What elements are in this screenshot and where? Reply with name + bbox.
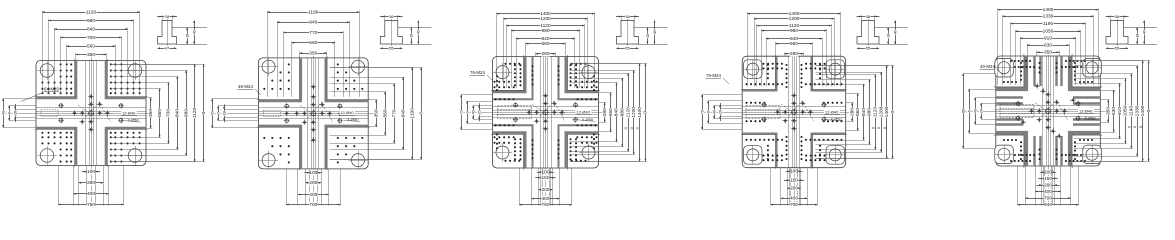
dim 630 right D5 [1113, 90, 1115, 132]
dim 700 right D1 [168, 83, 170, 144]
dim 1190 top D5 [1011, 23, 1086, 25]
dim 910 top D5 [1020, 38, 1076, 40]
svg-text:0: 0 [7, 112, 11, 114]
svg-text:40: 40 [1, 111, 5, 115]
svg-text:940: 940 [400, 109, 406, 117]
svg-text:350: 350 [1044, 50, 1052, 56]
svg-text:840: 840 [87, 26, 95, 32]
slot bars D5 offset 13.5 [996, 96, 1023, 98]
svg-text:40: 40 [471, 110, 475, 114]
svg-text:560: 560 [309, 40, 317, 46]
svg-text:630: 630 [1044, 43, 1052, 49]
dim 100 bottom D2 [304, 172, 322, 174]
dim 1400 right D3 [639, 63, 641, 161]
svg-text:700: 700 [1044, 195, 1052, 201]
mounting hole pattern D2 [264, 64, 362, 162]
dim 350 top D1 [76, 54, 106, 56]
svg-text:100: 100 [541, 169, 549, 175]
vertical centerline D5 [1048, 52, 1050, 206]
tie-bar holes D5 [998, 62, 1010, 74]
svg-text:12-Ø40: 12-Ø40 [122, 110, 136, 115]
svg-text:40: 40 [973, 109, 977, 113]
dim 980 right D3 [622, 78, 624, 147]
svg-text:1120: 1120 [86, 9, 97, 15]
dim 1330 top D5 [1003, 16, 1093, 18]
svg-text:700: 700 [87, 35, 95, 41]
svg-text:18: 18 [185, 34, 189, 38]
svg-text:1050: 1050 [1043, 29, 1054, 35]
svg-text:40: 40 [712, 110, 716, 114]
svg-text:76-M24: 76-M24 [470, 70, 485, 75]
svg-text:12-Ø40: 12-Ø40 [825, 109, 839, 114]
dim 1200 top D3 [504, 18, 588, 20]
detail depth dims D3 [647, 28, 649, 45]
dim 1120 top D4 [757, 25, 832, 27]
dim 700 top D1 [61, 37, 122, 39]
dim 100 bottom D4 [786, 171, 803, 173]
dim 1200 right D4 [881, 72, 883, 152]
svg-text:980: 980 [541, 28, 549, 34]
dim 400 bottom D3 [532, 198, 560, 200]
dim 750 bottom D1 [58, 204, 123, 206]
dim 1120 right D3 [628, 73, 630, 151]
dim 350 top D2 [300, 53, 327, 55]
detail dim 36 D2 [380, 16, 403, 18]
dim 1120 right D1 [194, 64, 196, 161]
dim 0 right D2 [421, 68, 423, 160]
svg-text:48-M24: 48-M24 [238, 84, 253, 89]
dim 840 right D1 [177, 77, 179, 150]
svg-text:40: 40 [1142, 30, 1146, 34]
svg-text:980: 980 [790, 28, 798, 34]
svg-text:980: 980 [183, 109, 189, 117]
svg-text:750: 750 [541, 202, 549, 206]
dim 840 top D1 [55, 29, 128, 31]
dim 560 right D4 [857, 93, 859, 130]
svg-text:200: 200 [1044, 182, 1052, 188]
dim 910 right D5 [1119, 83, 1121, 139]
svg-text:350: 350 [373, 109, 379, 117]
svg-text:980: 980 [620, 108, 626, 116]
dim 1200 right D3 [633, 70, 635, 154]
dim 770 top D2 [284, 32, 343, 34]
horizontal centerline D3 [461, 112, 605, 114]
center locating holes D5 [1046, 109, 1051, 114]
platen outline D4 [742, 56, 846, 168]
center locating holes D1 [89, 111, 94, 116]
svg-text:36: 36 [389, 14, 394, 19]
dim 1400 top D4 [747, 13, 840, 15]
dim 770 right D2 [394, 84, 396, 143]
detail depth dims D2 [411, 28, 413, 45]
dim 840 top D4 [766, 38, 822, 40]
svg-text:700: 700 [166, 109, 172, 117]
dim 280 right D4 [852, 103, 854, 122]
svg-text:47: 47 [165, 46, 170, 51]
center dashed leaders D1 [86, 102, 111, 122]
dim 1400 right D4 [886, 65, 888, 158]
arm slot lines D5 [1042, 56, 1044, 166]
left arm dims D2 [212, 99, 214, 128]
svg-text:1050: 1050 [1123, 105, 1129, 116]
svg-text:40: 40 [192, 30, 196, 34]
svg-text:1190: 1190 [1043, 21, 1054, 27]
svg-text:0: 0 [465, 111, 469, 113]
svg-text:76-M24: 76-M24 [706, 73, 721, 78]
svg-text:0: 0 [967, 110, 971, 112]
T-slot section detail D5 [1106, 21, 1128, 45]
svg-text:750: 750 [87, 202, 95, 206]
dim 980 top D3 [511, 30, 580, 32]
svg-text:1200: 1200 [878, 106, 884, 117]
left arm dims D5 [963, 74, 965, 149]
dim 1050 top D5 [1016, 31, 1081, 33]
svg-text:40: 40 [893, 30, 897, 34]
T-slot section detail D4 [857, 21, 879, 45]
svg-text:770: 770 [309, 30, 317, 36]
svg-text:560: 560 [855, 108, 861, 116]
svg-text:40: 40 [417, 30, 421, 34]
dim 0 right D4 [892, 65, 894, 158]
dim 280 top D3 [536, 53, 556, 55]
dim 700 bottom D2 [286, 204, 340, 206]
center dashed leaders D4 [789, 101, 814, 121]
center labels D1 [121, 110, 137, 115]
svg-text:0: 0 [201, 111, 207, 114]
center locating holes D3 [543, 110, 548, 115]
svg-text:100: 100 [1044, 169, 1052, 175]
svg-text:1120: 1120 [873, 107, 879, 118]
dim 1200 top D4 [754, 18, 834, 20]
svg-text:20: 20 [979, 109, 983, 113]
svg-text:1400: 1400 [540, 11, 551, 17]
T-slot cross bands D1 [36, 61, 76, 99]
svg-text:55: 55 [625, 46, 630, 51]
dim 100 bottom D1 [82, 171, 101, 173]
svg-text:150: 150 [790, 177, 798, 183]
tie-bar holes D2 [262, 60, 275, 73]
mounting hole pattern D5 [1004, 61, 1092, 161]
svg-text:280: 280 [790, 51, 798, 57]
svg-text:910: 910 [1117, 107, 1123, 115]
dim 840 right D3 [616, 83, 618, 142]
dim 700 bottom D4 [771, 204, 818, 206]
svg-text:0: 0 [890, 110, 896, 113]
mounting hole pattern D4 [747, 64, 842, 160]
svg-text:40: 40 [210, 111, 214, 115]
svg-text:200: 200 [790, 185, 798, 191]
dim 400 bottom D2 [298, 194, 329, 196]
platen outline D1 [36, 61, 146, 166]
dim 980 right D1 [186, 71, 188, 156]
detail dim 55 D2 [380, 48, 402, 50]
svg-text:100: 100 [87, 169, 95, 175]
dim 630 top D5 [1027, 45, 1069, 47]
center dashed leaders D3 [540, 101, 565, 121]
svg-text:40: 40 [653, 30, 657, 34]
dim 1400 top D5 [998, 9, 1098, 11]
svg-text:560: 560 [157, 109, 163, 117]
svg-text:36: 36 [625, 14, 630, 19]
svg-text:100: 100 [309, 170, 317, 176]
svg-text:400: 400 [1044, 189, 1052, 195]
svg-text:1190: 1190 [308, 9, 319, 15]
center labels D4 [824, 109, 840, 114]
svg-text:280: 280 [541, 51, 549, 57]
dim 1120 top D1 [42, 12, 139, 14]
svg-text:350: 350 [309, 50, 317, 56]
detail depth dims D1 [187, 28, 189, 45]
svg-text:0: 0 [1139, 126, 1143, 128]
svg-text:840: 840 [175, 109, 181, 117]
dim 0 right D1 [203, 64, 205, 161]
svg-text:150: 150 [541, 175, 549, 181]
svg-text:1200: 1200 [540, 16, 551, 22]
dim 150 bottom D4 [784, 180, 804, 182]
dim 1190 top D2 [267, 12, 359, 14]
dim 280 bottom D1 [79, 182, 103, 184]
dim 400 bottom D4 [781, 198, 808, 200]
svg-text:1190: 1190 [1129, 106, 1135, 117]
vertical centerline D3 [545, 53, 547, 207]
left arm dims D3 [461, 95, 463, 130]
svg-text:630: 630 [1111, 107, 1117, 115]
dim 940 top D2 [277, 22, 349, 24]
dim 700 bottom D5 [1025, 198, 1070, 200]
horizontal centerline D1 [3, 113, 152, 115]
svg-text:0: 0 [1146, 109, 1152, 112]
svg-text:940: 940 [309, 20, 317, 26]
dim 840 top D3 [516, 38, 575, 40]
svg-text:1120: 1120 [625, 107, 631, 118]
vertical centerline D2 [313, 54, 315, 206]
svg-text:1400: 1400 [789, 11, 800, 17]
svg-text:980: 980 [867, 108, 873, 116]
dim 560 top D1 [67, 46, 116, 48]
svg-text:1190: 1190 [409, 108, 415, 119]
dim 560 top D2 [292, 42, 335, 44]
detail depth dims D5 [1137, 28, 1139, 45]
svg-text:12-Ø40: 12-Ø40 [1079, 108, 1093, 113]
dim 1190 right D5 [1131, 74, 1133, 149]
svg-text:350: 350 [148, 109, 154, 117]
dim 1050 right D5 [1125, 79, 1127, 144]
svg-text:1330: 1330 [1043, 14, 1054, 20]
dim 400 bottom D5 [1035, 191, 1061, 193]
dim 200 bottom D5 [1037, 185, 1060, 187]
svg-text:560: 560 [382, 109, 388, 117]
T-slot cross bands D4 [742, 56, 776, 90]
dim 200 bottom D2 [306, 182, 321, 184]
svg-text:350: 350 [1105, 107, 1111, 115]
dim 150 bottom D3 [535, 177, 555, 179]
svg-text:400: 400 [87, 191, 95, 197]
svg-text:1400: 1400 [884, 106, 890, 117]
svg-text:36: 36 [1115, 14, 1120, 19]
svg-text:70: 70 [700, 110, 704, 114]
svg-text:840: 840 [614, 108, 620, 116]
T-slot cross bands D5 [996, 56, 1026, 89]
dim 150 bottom D5 [1038, 178, 1058, 180]
svg-text:0: 0 [871, 127, 875, 129]
tie-bar holes D1 [40, 64, 54, 78]
arm slot lines D2 [307, 58, 309, 169]
svg-text:150: 150 [1044, 176, 1052, 182]
svg-text:980: 980 [87, 18, 95, 24]
svg-text:200: 200 [541, 187, 549, 193]
svg-text:0: 0 [706, 111, 710, 113]
svg-text:350: 350 [87, 52, 95, 58]
center dashed leaders D2 [308, 102, 333, 122]
svg-text:18: 18 [886, 34, 890, 38]
vertical centerline D1 [91, 57, 93, 207]
dim 980 top D1 [49, 20, 134, 22]
horizontal centerline D2 [212, 113, 374, 115]
dim 980 top D4 [761, 30, 826, 32]
arm slot lines D4 [788, 56, 790, 168]
detail dim 36 D4 [857, 16, 880, 18]
svg-text:28: 28 [13, 111, 17, 115]
center dashed leaders D5 [1043, 100, 1068, 120]
svg-text:770: 770 [391, 109, 397, 117]
dim 200 bottom D4 [787, 188, 800, 190]
detail dim 36 D5 [1106, 16, 1129, 18]
svg-text:100: 100 [790, 168, 798, 174]
dim 1120 right D4 [875, 75, 877, 150]
platen outline D3 [493, 57, 599, 169]
T-slot section detail D1 [158, 21, 177, 45]
slot key marks D1 [41, 110, 58, 116]
svg-text:64-M20: 64-M20 [44, 87, 59, 92]
T-slot section detail D3 [617, 21, 639, 45]
dim 350 right D5 [1108, 100, 1110, 122]
svg-text:940: 940 [1044, 202, 1052, 206]
dim 350 right D1 [150, 98, 152, 128]
svg-text:700: 700 [790, 202, 798, 206]
svg-text:280: 280 [602, 108, 608, 116]
svg-text:280: 280 [849, 108, 855, 116]
svg-text:55: 55 [389, 46, 394, 51]
dim 280 top D4 [785, 53, 804, 55]
detail dim 55 D4 [857, 48, 879, 50]
svg-text:400: 400 [309, 192, 317, 198]
svg-text:0: 0 [877, 127, 881, 129]
dim 0 right D3 [645, 63, 647, 161]
dim 560 right D1 [159, 89, 161, 138]
dim 560 top D4 [775, 43, 812, 45]
svg-text:18: 18 [410, 34, 414, 38]
platen outline D2 [258, 58, 368, 169]
svg-text:560: 560 [790, 41, 798, 47]
svg-text:36: 36 [866, 14, 871, 19]
svg-text:560: 560 [541, 41, 549, 47]
svg-text:1200: 1200 [789, 16, 800, 22]
svg-text:1400: 1400 [1043, 7, 1054, 13]
svg-text:560: 560 [608, 108, 614, 116]
dim 840 right D4 [863, 84, 865, 140]
keyway hatch D3 [498, 106, 532, 119]
mounting hole pattern D3 [495, 64, 597, 161]
left arm dims D4 [702, 95, 704, 130]
dim 100 bottom D5 [1040, 172, 1056, 174]
mounting hole pattern D1 [42, 64, 139, 161]
svg-text:18: 18 [1135, 34, 1139, 38]
svg-text:0: 0 [883, 127, 887, 129]
dim 100 bottom D3 [537, 172, 554, 174]
tie-bar holes D4 [747, 63, 759, 75]
svg-text:0: 0 [1133, 126, 1137, 128]
detail dim 55 D5 [1106, 48, 1128, 50]
svg-text:55: 55 [1115, 46, 1120, 51]
svg-text:700: 700 [309, 202, 317, 206]
dim 1400 top D3 [497, 13, 595, 15]
dim 0 right D5 [1148, 61, 1150, 161]
detail dim 55 D3 [617, 48, 639, 50]
tie-bar holes D3 [496, 66, 509, 79]
svg-text:0: 0 [418, 112, 424, 115]
T-slot cross bands D2 [258, 58, 300, 101]
dim 560 right D2 [385, 92, 387, 135]
slot key marks D2 [263, 110, 280, 116]
horizontal centerline D4 [702, 112, 852, 114]
detail dim 28 D1 [157, 16, 177, 18]
slot bars D5 offset 8.0 [996, 102, 1023, 104]
dim 1120 top D3 [506, 25, 584, 27]
keyway hatch D5 [1000, 105, 1034, 118]
dim 560 right D3 [610, 93, 612, 132]
svg-text:28: 28 [165, 14, 170, 19]
keyway hatch D4 [746, 106, 780, 119]
dim 940 right D2 [403, 77, 405, 149]
dim 1190 right D2 [412, 68, 414, 160]
platen outline D5 [996, 56, 1101, 166]
svg-text:400: 400 [541, 196, 549, 202]
svg-text:1400: 1400 [637, 107, 643, 118]
svg-text:12-Ø40: 12-Ø40 [577, 110, 591, 115]
svg-text:40-M24: 40-M24 [980, 64, 995, 69]
center labels D2 [339, 110, 355, 115]
detail depth dims D4 [888, 28, 890, 45]
svg-text:20: 20 [718, 110, 722, 114]
dim 750 bottom D3 [519, 204, 571, 206]
T-slot cross bands D3 [493, 57, 526, 92]
vertical centerline D4 [794, 52, 796, 206]
svg-text:1400: 1400 [1140, 105, 1146, 116]
left arm dims D1 [3, 99, 5, 128]
svg-text:280: 280 [87, 180, 95, 186]
svg-text:0: 0 [1127, 126, 1131, 128]
center labels D5 [1078, 108, 1094, 113]
svg-text:910: 910 [1044, 36, 1052, 42]
svg-text:1200: 1200 [631, 107, 637, 118]
svg-text:1120: 1120 [192, 108, 198, 119]
detail dim 47 D1 [158, 48, 177, 50]
dim 980 right D4 [869, 79, 871, 144]
detail dim 36 D3 [616, 16, 639, 18]
svg-text:18: 18 [646, 34, 650, 38]
svg-text:400: 400 [790, 196, 798, 202]
dim 350 top D5 [1037, 52, 1059, 54]
dim 940 bottom D5 [1018, 204, 1079, 206]
dim 400 bottom D1 [74, 193, 109, 195]
dim 200 bottom D3 [539, 189, 553, 191]
corner pads D5 [995, 59, 1014, 78]
svg-text:840: 840 [861, 108, 867, 116]
svg-text:200: 200 [309, 180, 317, 186]
arm slot lines D1 [85, 61, 87, 166]
dim 560 top D3 [526, 43, 565, 45]
dim 280 right D3 [604, 103, 606, 123]
